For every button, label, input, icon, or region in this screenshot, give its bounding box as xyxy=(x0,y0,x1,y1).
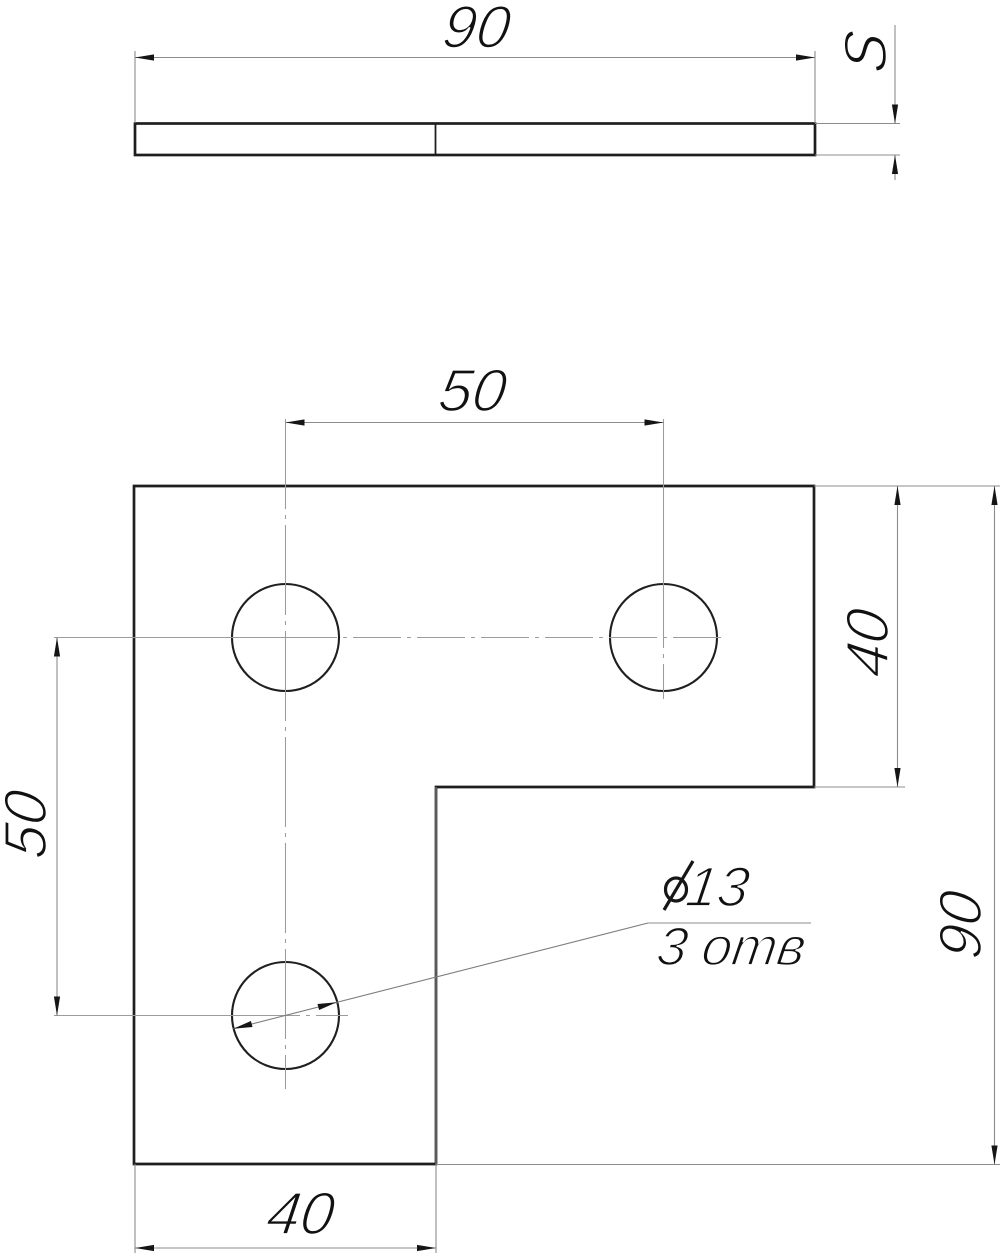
horizontal centerline bottom hole xyxy=(54,1015,300,1017)
dimension 40 (bottom) extension line left xyxy=(134,1164,136,1253)
arrowhead 90 right xyxy=(796,54,815,60)
dimension 40 (bottom) dimension line xyxy=(135,1247,436,1249)
arrowhead 90 right top xyxy=(991,486,997,505)
arrowhead 50 right xyxy=(645,419,664,425)
leader line for hole callout xyxy=(233,923,648,1029)
horizontal centerline through top holes xyxy=(54,637,337,639)
svg-text:13: 13 xyxy=(682,855,753,918)
svg-text:40: 40 xyxy=(833,604,901,681)
svg-text:50: 50 xyxy=(0,785,59,862)
extension line right of 90 xyxy=(814,51,816,123)
dimension S extension line upper xyxy=(815,123,900,125)
svg-text:3 отв: 3 отв xyxy=(653,917,810,977)
vertical centerline left holes xyxy=(285,419,287,1089)
leader arrowhead right xyxy=(318,1002,337,1010)
arrowhead 90 right bottom xyxy=(991,1146,997,1165)
hole bottom-left xyxy=(232,962,339,1069)
dimension 50 (left) dimension line xyxy=(56,638,58,1016)
svg-text:40: 40 xyxy=(263,1179,340,1247)
hole top-left xyxy=(232,584,339,691)
svg-text:50: 50 xyxy=(435,356,512,424)
dimension 40 (right) extension line top xyxy=(814,485,1000,487)
arrowhead 40 bottom left xyxy=(135,1245,154,1251)
main view L-shaped plate outline xyxy=(134,486,814,1164)
arrowhead 50 left top xyxy=(54,638,60,657)
arrowhead S lower xyxy=(892,155,898,174)
extension line left of 90 xyxy=(134,51,136,123)
arrowhead 50 left bottom xyxy=(54,997,60,1016)
top view plate outline xyxy=(135,124,815,156)
dimension 40 (bottom) extension line right xyxy=(435,787,437,1253)
diameter symbol xyxy=(666,878,687,901)
hole top-right xyxy=(610,584,717,691)
dimension 40 (right) extension line bottom xyxy=(814,786,905,788)
dimension 90 (right) dimension line xyxy=(994,486,996,1165)
arrowhead 40 top xyxy=(894,486,900,505)
svg-text:90: 90 xyxy=(926,886,994,963)
leader arrowhead left xyxy=(233,1021,252,1029)
dimension 90 (right) extension line bottom xyxy=(436,1164,1000,1166)
arrowhead 90 left xyxy=(135,54,154,60)
svg-text:90: 90 xyxy=(439,0,516,60)
dimension 90 (top view) dimension line xyxy=(135,57,815,59)
arrowhead 50 left xyxy=(286,419,305,425)
dimension S line upper segment xyxy=(894,25,896,124)
dimension 40 (right) dimension line xyxy=(897,486,899,787)
top view divider line xyxy=(435,124,437,156)
leader underline xyxy=(648,922,811,924)
dimension S extension line lower xyxy=(815,154,900,156)
arrowhead 40 bottom xyxy=(894,768,900,787)
dimension 50 (top) dimension line xyxy=(286,422,664,424)
arrowhead S upper xyxy=(892,105,898,124)
vertical centerline right hole xyxy=(663,419,665,648)
arrowhead 40 bottom right xyxy=(417,1245,436,1251)
dimension S line lower segment xyxy=(894,155,896,180)
